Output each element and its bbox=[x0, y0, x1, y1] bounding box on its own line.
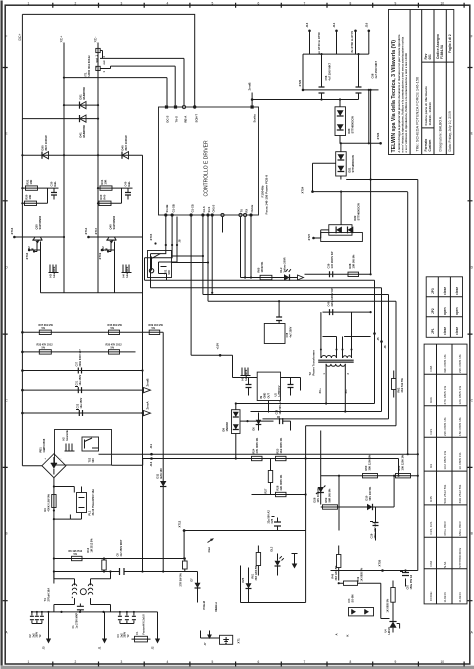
svg-text:R65: R65 bbox=[257, 267, 261, 272]
svg-text:R50: R50 bbox=[364, 465, 368, 470]
svg-text:R31: R31 bbox=[26, 179, 30, 184]
svg-text:RE-A: RE-A bbox=[184, 116, 188, 123]
heatsink H4 bbox=[122, 265, 132, 278]
svg-text:36-46 75mA/250V 16A: 36-46 75mA/250V 16A bbox=[91, 489, 95, 516]
svg-text:Q30: Q30 bbox=[35, 224, 39, 230]
scan edge strip bottom bbox=[1, 666, 474, 669]
svg-text:G1-CB: G1-CB bbox=[190, 204, 194, 212]
svg-text:R40: R40 bbox=[103, 194, 107, 199]
title block outline bbox=[389, 10, 454, 155]
frame zone letters right bbox=[471, 35, 474, 635]
resistor R36 bbox=[39, 324, 54, 335]
resistor R53 bbox=[387, 581, 396, 613]
svg-text:XT12: XT12 bbox=[178, 520, 182, 527]
LED DL3 bbox=[271, 546, 284, 575]
svg-text:XC+: XC+ bbox=[60, 36, 64, 43]
node XT24 bbox=[301, 186, 314, 193]
svg-text:1M 2512 5%: 1M 2512 5% bbox=[91, 538, 94, 553]
bridge rectifier PD1 bbox=[42, 454, 66, 478]
wire U2 connections bbox=[191, 355, 300, 412]
svg-text:1: 1 bbox=[28, 2, 30, 6]
svg-text:XC-: XC- bbox=[344, 389, 348, 394]
resistor rail rows: wire 331 bbox=[21, 331, 163, 334]
svg-text:H3: H3 bbox=[49, 274, 53, 278]
pin Scelta bbox=[251, 105, 257, 122]
resistor R28 bbox=[276, 474, 287, 497]
thermal switch TS1 bbox=[148, 251, 210, 278]
heatsink H5 bbox=[241, 368, 251, 381]
capacitor C17 bbox=[288, 378, 294, 396]
title block data cell bbox=[448, 111, 452, 151]
svg-text:Heatsink: Heatsink bbox=[52, 266, 56, 277]
svg-text:150u 35V A6: 150u 35V A6 bbox=[410, 574, 413, 589]
capacitor C26 bbox=[276, 401, 291, 431]
relay box M1 bbox=[55, 429, 112, 465]
svg-text:22u 50V A2: 22u 50V A2 bbox=[268, 510, 271, 524]
label Q40 bbox=[109, 215, 117, 229]
capacitor C40s bbox=[124, 181, 132, 200]
wire zener branch bbox=[321, 431, 339, 531]
svg-text:3K3 1206 5%: 3K3 1206 5% bbox=[335, 565, 338, 581]
wire top rail to SCH-T bbox=[22, 14, 194, 107]
resistor R4 bbox=[43, 493, 56, 511]
svg-text:15K 0805 1%: 15K 0805 1% bbox=[458, 417, 462, 436]
wire row 494 bbox=[252, 493, 307, 495]
svg-text:R4: R4 bbox=[43, 508, 47, 512]
svg-text:430K 0.5W 5%: 430K 0.5W 5% bbox=[47, 493, 51, 511]
connector J3 bbox=[42, 611, 52, 650]
svg-text:RURP860: RURP860 bbox=[82, 86, 86, 99]
title block codice assegno cell bbox=[436, 34, 444, 59]
svg-text:J2: J2 bbox=[151, 646, 155, 649]
wire mains row 558 bbox=[54, 558, 184, 560]
svg-text:1: 1 bbox=[28, 660, 30, 664]
label NEB2-A bbox=[214, 602, 218, 612]
svg-text:D22: D22 bbox=[353, 215, 357, 220]
svg-text:out: out bbox=[95, 58, 99, 62]
svg-text:10u 450V: 10u 450V bbox=[80, 397, 83, 408]
capacitor C57 bbox=[400, 571, 413, 590]
label T2 bbox=[308, 349, 316, 375]
diode module D20 bbox=[335, 107, 346, 136]
svg-text:R27: R27 bbox=[264, 488, 268, 493]
svg-text:BZX 16V: BZX 16V bbox=[159, 468, 163, 479]
resistor R6 bbox=[69, 550, 83, 561]
svg-text:8: 8 bbox=[350, 660, 352, 664]
svg-text:114943 - 114944: 114943 - 114944 bbox=[428, 102, 432, 125]
connector J2 bbox=[151, 612, 161, 650]
svg-text:R41: R41 bbox=[100, 179, 104, 184]
resistor R42 gate bbox=[102, 246, 108, 251]
svg-text:220p 1600V KP: 220p 1600V KP bbox=[330, 288, 334, 307]
svg-text:10R 5W 5%: 10R 5W 5% bbox=[352, 254, 356, 269]
frame zone numbers bottom bbox=[28, 660, 445, 664]
svg-text:J11: J11 bbox=[149, 444, 153, 449]
svg-text:114944: 114944 bbox=[458, 592, 462, 602]
svg-text:Title: SCHEDA POTENZA FORCE: Title: SCHEDA POTENZA FORCE 146-156 bbox=[415, 77, 420, 152]
capacitor C31 electrolytic bbox=[75, 374, 82, 393]
svg-text:10R: 10R bbox=[28, 195, 32, 200]
wire DC-S feed bbox=[63, 77, 167, 106]
title block title row bbox=[415, 77, 420, 152]
svg-text:6: 6 bbox=[258, 2, 260, 6]
svg-text:2: 2 bbox=[75, 660, 77, 664]
svg-text:220n 630V 10?: 220n 630V 10? bbox=[79, 349, 82, 367]
frame zone numbers top bbox=[28, 2, 445, 6]
svg-text:10V 400mW: 10V 400mW bbox=[316, 488, 320, 503]
svg-text:XT15: XT15 bbox=[149, 233, 153, 240]
label pin K bbox=[346, 634, 350, 636]
pin DC-S bbox=[165, 105, 170, 122]
svg-text:XT1: XT1 bbox=[237, 638, 241, 644]
svg-text:XT16: XT16 bbox=[25, 252, 29, 259]
node XT12 bbox=[178, 520, 186, 531]
svg-text:Disegnatore: BALBO A.: Disegnatore: BALBO A. bbox=[439, 116, 443, 151]
svg-text:J3: J3 bbox=[42, 646, 46, 649]
svg-text:J14: J14 bbox=[332, 22, 336, 27]
resistor R49 bbox=[338, 567, 390, 619]
svg-text:XT27: XT27 bbox=[307, 233, 311, 240]
optocoupler IC2 bbox=[348, 595, 374, 616]
svg-text:2K2 512 5%: 2K2 512 5% bbox=[400, 378, 404, 393]
svg-text:D11: D11 bbox=[156, 473, 160, 478]
node J14 bbox=[332, 22, 338, 54]
label 2mA arrow bbox=[207, 539, 214, 553]
title block codice parte cell bbox=[424, 86, 432, 125]
svg-text:R68: R68 bbox=[429, 366, 433, 372]
node J5 bbox=[373, 332, 380, 340]
svg-text:e ne e' vietata la riproduzion: e ne e' vietata la riproduzione, l'utili… bbox=[401, 36, 405, 152]
svg-text:39K 1206 1%: 39K 1206 1% bbox=[368, 454, 372, 470]
wire snubber top rail bbox=[305, 273, 372, 275]
svg-text:close: close bbox=[443, 287, 447, 295]
wire sense row 458 bbox=[235, 457, 307, 459]
svg-text:A: A bbox=[335, 633, 339, 635]
zener D11 bbox=[156, 468, 167, 487]
label D41 bbox=[79, 124, 87, 137]
zener D28 bbox=[313, 486, 326, 503]
svg-text:GBPC3508: GBPC3508 bbox=[42, 438, 46, 452]
svg-text:IN: IN bbox=[259, 396, 263, 399]
diode D25 bbox=[242, 568, 252, 603]
wire staple bus top right bbox=[303, 53, 369, 100]
svg-text:JP1: JP1 bbox=[431, 328, 435, 334]
svg-text:ZeroB: ZeroB bbox=[248, 82, 252, 90]
svg-text:Faston-M 6.3x0.8: Faston-M 6.3x0.8 bbox=[143, 614, 146, 635]
svg-text:D20: D20 bbox=[347, 128, 351, 133]
wire 412 row bbox=[21, 412, 143, 415]
svg-text:10R: 10R bbox=[104, 180, 108, 185]
label U300 module bbox=[84, 55, 99, 77]
svg-text:2: 2 bbox=[75, 2, 77, 6]
svg-text:10u 450V: 10u 450V bbox=[79, 374, 82, 385]
svg-text:STTH6003CW: STTH6003CW bbox=[357, 203, 361, 221]
frame zone letters left bbox=[5, 35, 8, 635]
wire D21 connections bbox=[313, 142, 372, 191]
svg-text:CH1-S: CH1-S bbox=[211, 204, 215, 212]
svg-text:F: F bbox=[5, 35, 7, 39]
svg-text:10: 10 bbox=[441, 2, 445, 6]
svg-text:R38: R38 bbox=[348, 263, 352, 268]
node DC+ label bbox=[18, 34, 22, 41]
svg-text:7: 7 bbox=[304, 660, 306, 664]
svg-text:90C: 90C bbox=[92, 458, 95, 463]
node J13 bbox=[305, 22, 311, 54]
svg-text:J1: J1 bbox=[98, 646, 102, 649]
node XT27 bbox=[307, 233, 315, 240]
wire relay contacts to J11 J12 bbox=[99, 453, 419, 477]
snubber channel 2 wires bbox=[97, 187, 133, 204]
label for XT40 to XT59 bbox=[317, 32, 321, 55]
svg-text:open: open bbox=[455, 307, 459, 315]
svg-text:C40: C40 bbox=[124, 181, 128, 186]
svg-text:10K 1206 1%: 10K 1206 1% bbox=[401, 454, 405, 470]
heatsink H3 bbox=[49, 265, 59, 278]
svg-text:E: E bbox=[471, 132, 473, 136]
transformer T2 bbox=[318, 312, 370, 411]
wire DC+ bus bbox=[21, 14, 23, 465]
terminal XT1 earth bbox=[201, 631, 241, 645]
wire mains row 571 bbox=[54, 539, 198, 575]
fuse F1 bbox=[132, 614, 151, 642]
svg-text:E: E bbox=[5, 132, 7, 136]
capacitor bank C2 C3 C4 bbox=[29, 611, 44, 638]
svg-text:9: 9 bbox=[395, 660, 397, 664]
svg-text:12K 0805 1%: 12K 0805 1% bbox=[458, 386, 462, 405]
svg-text:8x XT60 to XT79: 8x XT60 to XT79 bbox=[350, 31, 354, 53]
svg-text:5: 5 bbox=[212, 2, 214, 6]
svg-text:R&L: R&L bbox=[53, 181, 57, 187]
transistor Q40 bbox=[89, 237, 117, 253]
label D40 bbox=[121, 135, 129, 150]
label D30 bbox=[41, 135, 49, 150]
node ZeroB top bbox=[248, 82, 254, 100]
node J8 bbox=[178, 239, 182, 242]
svg-text:Scelta: Scelta bbox=[252, 114, 256, 123]
svg-text:22K 0805 1%: 22K 0805 1% bbox=[279, 474, 283, 490]
node J6 bbox=[380, 340, 387, 348]
node XT13 bbox=[10, 227, 16, 238]
svg-text:1u 275V MKP: 1u 275V MKP bbox=[76, 612, 79, 628]
label PD1 bbox=[39, 438, 47, 452]
wire XT12 row bbox=[183, 529, 306, 559]
svg-text:NEB2-A: NEB2-A bbox=[214, 602, 218, 612]
node J16 bbox=[364, 22, 370, 54]
title block disegnatore cell bbox=[439, 116, 443, 151]
node XT22 bbox=[376, 132, 382, 144]
svg-text:+15V: +15V bbox=[216, 343, 220, 350]
svg-text:39R 2512 5%: 39R 2512 5% bbox=[458, 485, 462, 504]
svg-text:LM431: LM431 bbox=[388, 626, 391, 634]
capacitor C56 bbox=[319, 62, 332, 93]
svg-text:JP2: JP2 bbox=[431, 308, 435, 314]
node XT17 bbox=[94, 227, 98, 234]
svg-text:1K2 0805 1%: 1K2 0805 1% bbox=[443, 451, 447, 470]
svg-text:CONTROLLO E DRIVER: CONTROLLO E DRIVER bbox=[204, 140, 210, 197]
resistor R38 bbox=[348, 254, 359, 277]
svg-text:C58: C58 bbox=[371, 73, 375, 78]
svg-text:C29: C29 bbox=[370, 533, 374, 538]
svg-text:A termini di legge la propriet: A termini di legge la proprieta' del pre… bbox=[397, 34, 401, 152]
svg-text:TA-S: TA-S bbox=[175, 116, 179, 122]
diode D6 bbox=[253, 413, 262, 431]
svg-text:J12: J12 bbox=[149, 461, 153, 466]
svg-text:XC+: XC+ bbox=[318, 388, 322, 394]
wire right rail to transformer bbox=[370, 89, 372, 274]
svg-text:680u 450V: 680u 450V bbox=[458, 520, 462, 536]
svg-text:Q40: Q40 bbox=[109, 224, 113, 230]
connector J1 bbox=[98, 612, 108, 650]
choke T4 bbox=[54, 572, 111, 612]
svg-text:J6: J6 bbox=[383, 345, 387, 349]
resistor R50 bbox=[363, 454, 378, 478]
svg-text:R30: R30 bbox=[25, 194, 29, 199]
svg-text:STTH8003CW: STTH8003CW bbox=[351, 155, 355, 173]
svg-text:XT19: XT19 bbox=[98, 252, 102, 259]
wire snubber lower rail bbox=[323, 311, 372, 313]
jumper option table bbox=[426, 277, 462, 338]
svg-text:close: close bbox=[455, 327, 459, 335]
wire collector rail bbox=[21, 154, 143, 571]
svg-text:114943: 114943 bbox=[443, 592, 447, 602]
svg-text:R51: R51 bbox=[397, 465, 401, 470]
wire C38 link bbox=[278, 300, 280, 302]
svg-text:C25: C25 bbox=[271, 518, 274, 523]
svg-text:J5: J5 bbox=[376, 337, 380, 341]
resistor R23 bbox=[276, 437, 287, 461]
svg-text:STTH8003CW: STTH8003CW bbox=[351, 116, 355, 134]
svg-text:2mA: 2mA bbox=[207, 547, 211, 553]
svg-text:TX: TX bbox=[240, 209, 244, 213]
svg-text:K: K bbox=[346, 634, 350, 636]
resistor R30 bbox=[25, 194, 37, 205]
wire xc cap bus bbox=[252, 90, 378, 107]
resistor R35b bbox=[106, 344, 123, 355]
svg-text:L7815CV: L7815CV bbox=[277, 385, 281, 396]
svg-text:C22, C21: C22, C21 bbox=[429, 521, 433, 534]
svg-text:RX: RX bbox=[244, 209, 248, 213]
svg-text:T4: T4 bbox=[43, 598, 47, 602]
svg-text:10u 50V A2: 10u 50V A2 bbox=[279, 401, 282, 415]
svg-text:R23: R23 bbox=[276, 448, 280, 453]
svg-text:5: 5 bbox=[212, 660, 214, 664]
resistor R27 bbox=[264, 459, 273, 495]
svg-text:J7: J7 bbox=[203, 642, 207, 645]
svg-text:001: 001 bbox=[428, 54, 432, 60]
resistor R39 bbox=[149, 324, 164, 335]
svg-text:o se e' utilizzato in riproduz: o se e' utilizzato in riproduzione, l'ut… bbox=[404, 53, 408, 153]
op-amp controller box U1 CONTROLLO E DRIVER bbox=[159, 107, 259, 215]
svg-text:56R 5W 5%: 56R 5W 5% bbox=[328, 488, 332, 503]
svg-text:56V 1W 5%: 56V 1W 5% bbox=[368, 486, 372, 500]
svg-text:47K 0805 1%: 47K 0805 1% bbox=[255, 437, 259, 453]
svg-text:JP3: JP3 bbox=[431, 288, 435, 294]
capacitor bank C3b bbox=[117, 611, 136, 638]
resistor R61 bbox=[252, 546, 261, 581]
svg-text:56R 2512 5%: 56R 2512 5% bbox=[443, 485, 447, 504]
svg-text:Heatsink: Heatsink bbox=[66, 429, 69, 440]
scan edge bar left bbox=[1, 1, 3, 666]
svg-text:R&L: R&L bbox=[127, 181, 131, 187]
capacitor C37 bbox=[76, 349, 83, 374]
wire XT24 to D22 bbox=[313, 191, 408, 225]
svg-text:39K 0805 1%: 39K 0805 1% bbox=[443, 354, 447, 373]
capacitor C40 bbox=[327, 288, 335, 315]
svg-text:R21: R21 bbox=[429, 429, 433, 435]
node J11 bbox=[149, 444, 153, 456]
node J12 bbox=[149, 457, 153, 466]
svg-text:SGP30N60: SGP30N60 bbox=[112, 215, 116, 229]
svg-text:J16: J16 bbox=[364, 22, 368, 27]
diode module D22 bbox=[329, 225, 354, 236]
pin TA-S bbox=[174, 105, 179, 122]
wire D22 shield box bbox=[314, 230, 363, 242]
svg-text:4u7 250V MKT: 4u7 250V MKT bbox=[374, 60, 378, 78]
svg-text:DC-S: DC-S bbox=[166, 116, 170, 123]
svg-text:C30: C30 bbox=[50, 181, 54, 186]
svg-text:U300 30A 600-H: U300 30A 600-H bbox=[87, 56, 91, 77]
title block company text TELWIN bbox=[391, 34, 408, 152]
wire mains row 611 bbox=[32, 611, 158, 613]
wire 389 row bbox=[21, 389, 143, 392]
resistor R51 bbox=[396, 454, 411, 478]
svg-text:9: 9 bbox=[395, 2, 397, 6]
svg-text:N.M.: N.M. bbox=[443, 561, 447, 568]
title block formato cell bbox=[424, 139, 432, 152]
svg-text:22K 0805 1%: 22K 0805 1% bbox=[458, 354, 462, 373]
svg-text:F: F bbox=[471, 35, 473, 39]
svg-text:3: 3 bbox=[121, 2, 123, 6]
svg-text:3: 3 bbox=[121, 660, 123, 664]
svg-text:8: 8 bbox=[350, 2, 352, 6]
wire sense row 475 bbox=[321, 475, 419, 477]
svg-text:RURP860: RURP860 bbox=[82, 124, 86, 137]
svg-text:XT13: XT13 bbox=[10, 227, 14, 234]
svg-text:XT14: XT14 bbox=[84, 227, 88, 234]
node XT15 bbox=[149, 233, 157, 244]
capacitor C1 bbox=[72, 604, 84, 629]
wire module link bbox=[96, 48, 111, 72]
svg-text:Power Transformer: Power Transformer bbox=[312, 349, 316, 375]
LED DL2 bbox=[279, 257, 304, 280]
svg-text:SO-8M: SO-8M bbox=[351, 595, 354, 603]
svg-text:1n5 1600V KP: 1n5 1600V KP bbox=[330, 251, 334, 268]
svg-text:POE.M: POE.M bbox=[202, 601, 206, 609]
bridge D8 bbox=[232, 402, 274, 458]
svg-text:PD1: PD1 bbox=[39, 447, 43, 453]
svg-text:J13: J13 bbox=[305, 22, 309, 27]
svg-text:for XT40 to XT59: for XT40 to XT59 bbox=[317, 32, 321, 55]
svg-text:OUT: OUT bbox=[267, 393, 271, 399]
label D21 bbox=[347, 155, 355, 173]
label Q30 bbox=[35, 215, 43, 229]
svg-text:Heatsink: Heatsink bbox=[244, 369, 248, 380]
wire gate bundle drop bbox=[375, 280, 397, 426]
label POE.M bbox=[202, 601, 206, 609]
svg-text:B: B bbox=[5, 532, 7, 536]
resistor R46 bbox=[332, 546, 341, 581]
wire RE-A feed bbox=[100, 58, 184, 105]
svg-text:1K 0805 5%: 1K 0805 5% bbox=[387, 598, 390, 613]
label 8x XT60 to XT79 bbox=[350, 31, 354, 53]
secondary output box bbox=[241, 426, 306, 603]
svg-text:1K2 0805 1%: 1K2 0805 1% bbox=[279, 437, 283, 453]
svg-text:R28: R28 bbox=[276, 485, 280, 490]
node ZeroB arrow bbox=[144, 378, 151, 392]
node XC- label bbox=[94, 37, 98, 43]
capacitor C13 bbox=[246, 378, 252, 396]
diode module D21 bbox=[336, 152, 347, 176]
